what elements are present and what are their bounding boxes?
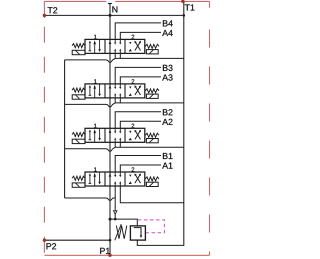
- valve 4 B-port line to relief junction: [114, 186, 116, 219]
- work port line B3: [115, 67, 161, 84]
- port N cap: [108, 3, 112, 5]
- junction B-stub: [114, 218, 117, 221]
- pump gallery N-P1 vertical: [109, 4, 111, 256]
- work port label B3: [163, 65, 173, 71]
- port label P1: [100, 248, 110, 254]
- relief valve flow arrow: [134, 228, 141, 236]
- work port line A3: [120, 77, 161, 84]
- right tank gallery: [137, 1, 184, 245]
- port T1 dot: [181, 0, 184, 3]
- work port label A3: [162, 74, 172, 80]
- section 4 return line with crossover jump: [65, 198, 116, 201]
- relief valve RV body: [130, 226, 145, 240]
- work port line A4: [120, 32, 161, 39]
- port P1 dot: [108, 254, 111, 257]
- work port label B1: [163, 153, 173, 159]
- junction T1: [183, 14, 186, 17]
- valve 3 B-port stub: [114, 142, 116, 147]
- port label T2: [48, 7, 58, 13]
- work port line B2: [115, 112, 161, 129]
- junction P2 tee: [109, 239, 112, 242]
- section 2 return line with crossover jump: [65, 103, 184, 107]
- directional control valve V2: [72, 79, 159, 99]
- work port line B4: [115, 23, 161, 40]
- valve 2 A-port stub: [119, 98, 121, 103]
- work port line A1: [120, 165, 161, 172]
- tank line T2-T1: [44, 14, 183, 16]
- pump port P2 line: [44, 239, 110, 241]
- flow direction arrow: [113, 211, 117, 214]
- section 3 return line with crossover jump: [65, 147, 184, 151]
- work port label B2: [163, 109, 173, 115]
- valve 2 B-port stub: [114, 98, 116, 103]
- work port label A2: [162, 119, 172, 125]
- directional control valve V3: [72, 124, 159, 144]
- port label N: [112, 6, 117, 12]
- work port label A4: [162, 30, 172, 36]
- directional control valve V1: [72, 35, 159, 55]
- section 4 A-side return to gallery: [120, 186, 184, 203]
- work port line B1: [115, 156, 161, 173]
- relief valve adjustable spring: [116, 226, 126, 239]
- junction relief feed: [109, 218, 112, 221]
- work port label A1: [162, 163, 172, 169]
- junction N tank: [109, 14, 112, 17]
- work port line A2: [120, 121, 161, 128]
- port label P2: [47, 243, 57, 249]
- relief valve pilot line: [138, 220, 165, 233]
- port label T1: [185, 4, 195, 10]
- relief valve feed line: [110, 219, 137, 226]
- left feed gallery: [64, 60, 66, 198]
- valve 1 B-port stub: [114, 53, 116, 58]
- port T2 dot: [43, 14, 46, 17]
- valve 1 A-port stub: [119, 53, 121, 58]
- port P2 dot: [43, 239, 46, 242]
- work port label B4: [163, 20, 173, 26]
- valve assembly boundary (red dashed enclosure): [44, 1, 209, 255]
- section 1 return line with crossover jump: [65, 58, 184, 62]
- directional control valve V4: [72, 167, 159, 187]
- valve 3 A-port stub: [119, 142, 121, 147]
